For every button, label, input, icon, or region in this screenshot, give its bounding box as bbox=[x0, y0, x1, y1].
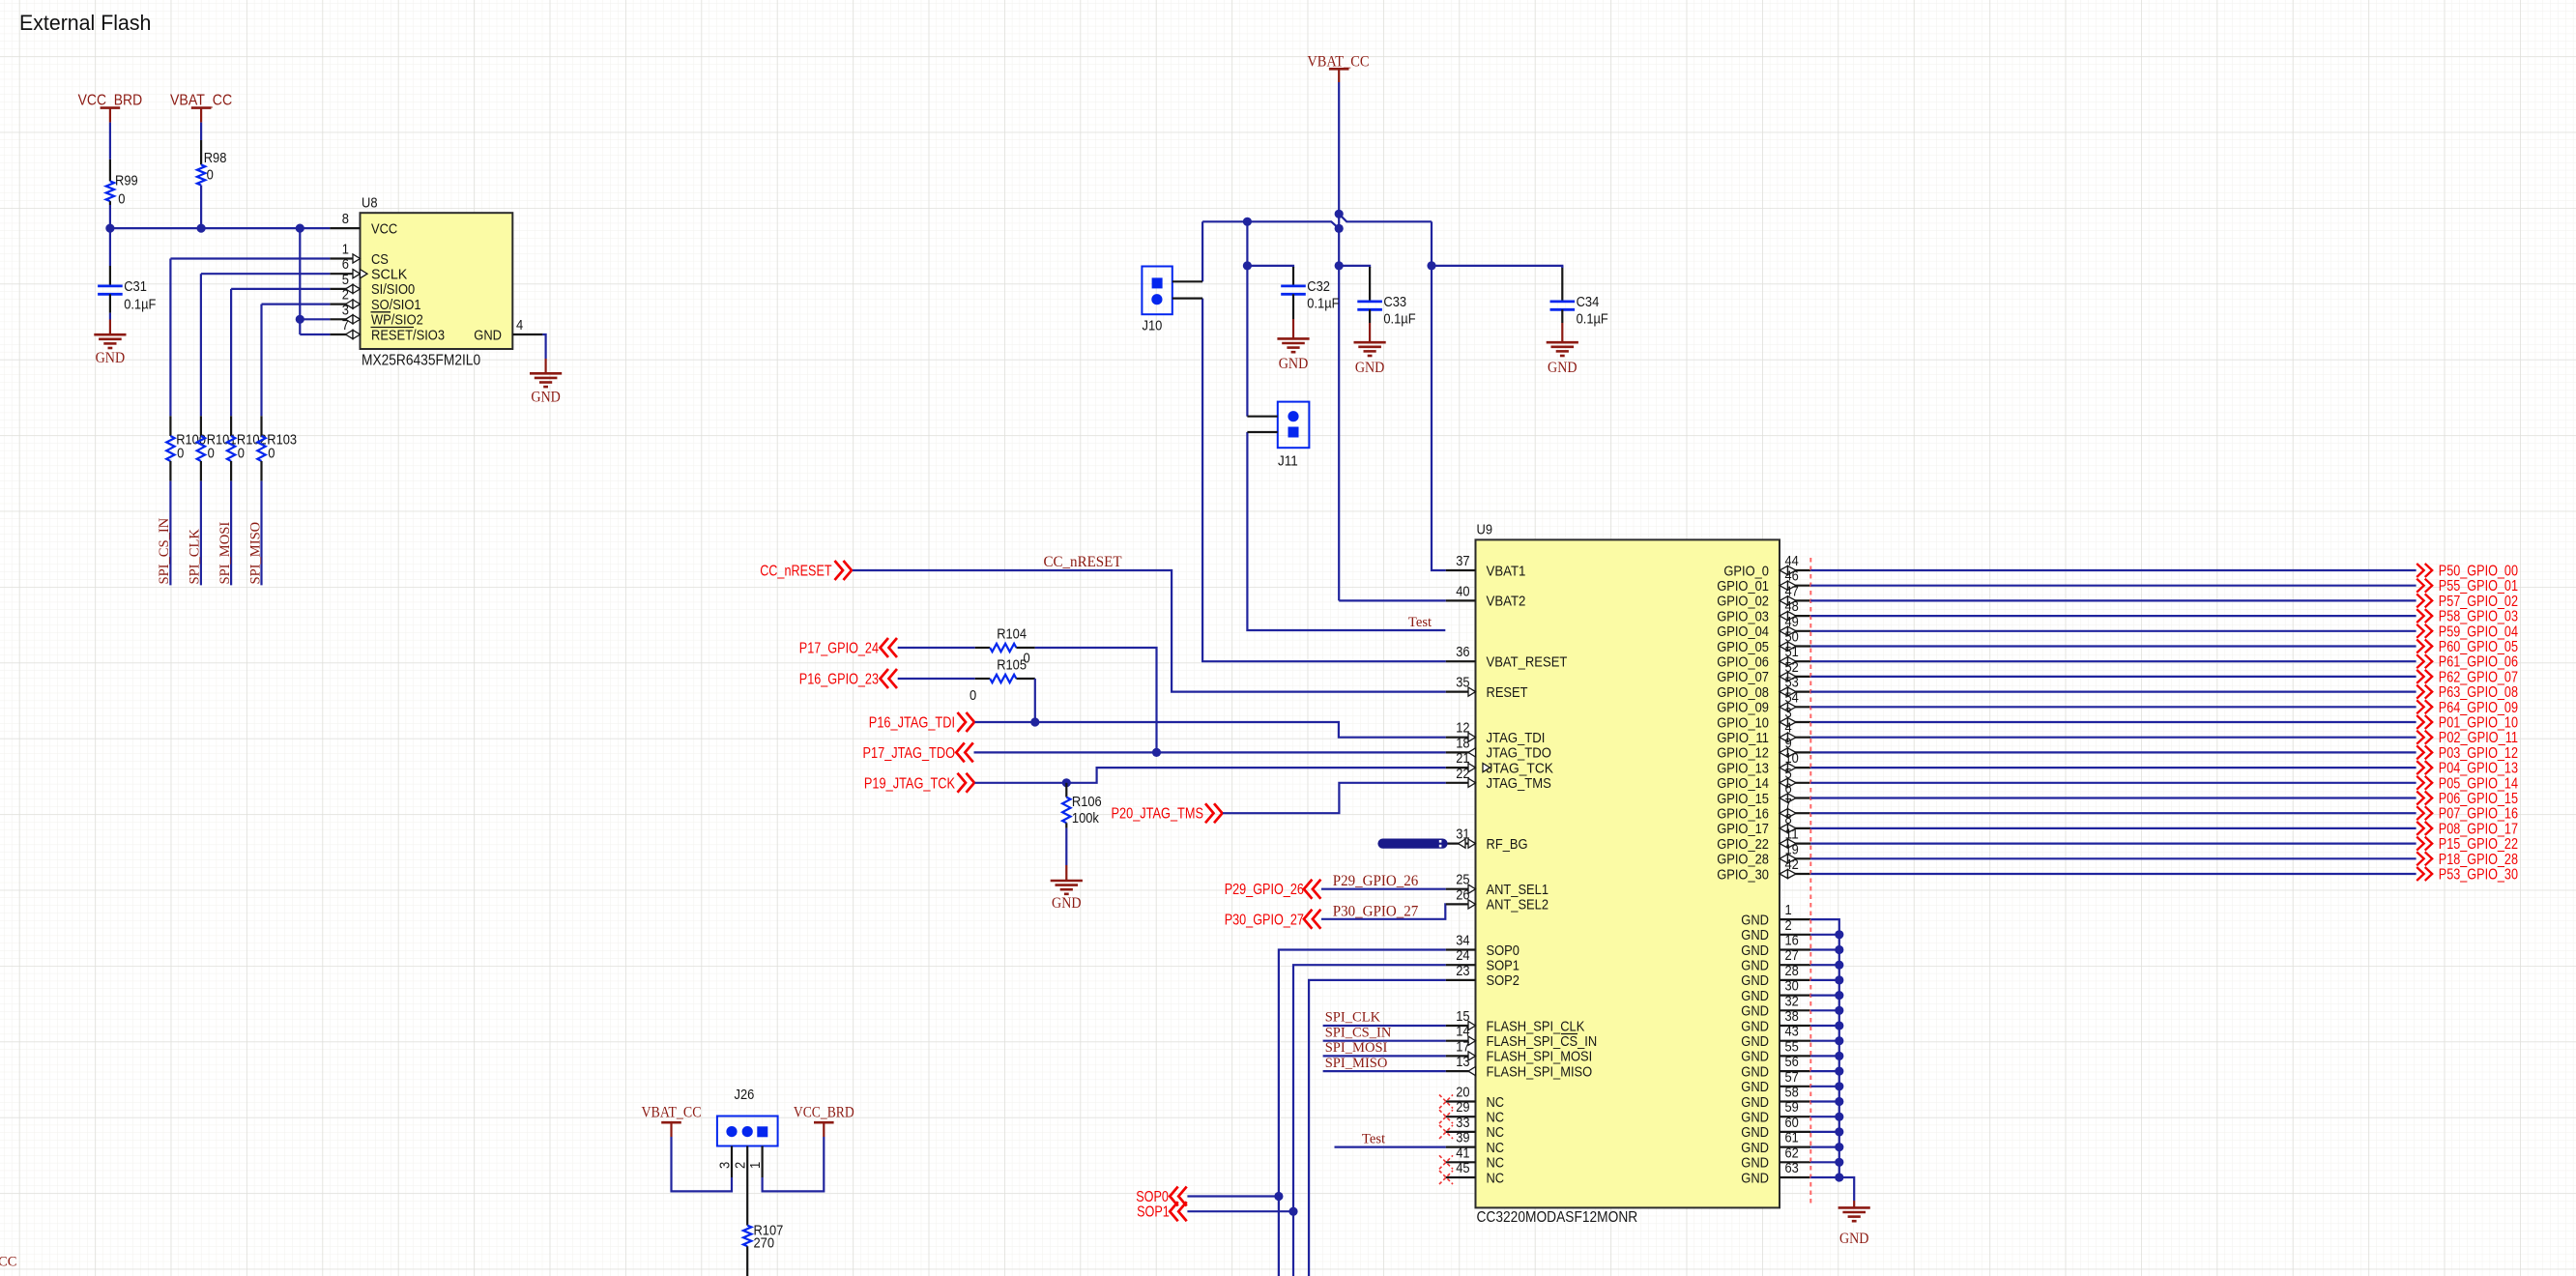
wire GPIO row 17 bbox=[1810, 827, 2416, 829]
wire J26 pin3 to VBAT_CC bbox=[672, 1137, 733, 1191]
wire CC_nRESET to RESET pin35 bbox=[853, 570, 1446, 692]
port P63_GPIO_08 bbox=[2417, 684, 2518, 701]
svg-text:MX25R6435FM2IL0: MX25R6435FM2IL0 bbox=[362, 353, 480, 369]
U9 pin 2 GND bbox=[1741, 917, 1810, 943]
junction GND bus bbox=[1835, 975, 1843, 984]
svg-text:P03_GPIO_12: P03_GPIO_12 bbox=[2439, 745, 2518, 762]
svg-text:2: 2 bbox=[1785, 917, 1792, 934]
svg-text:GPIO_17: GPIO_17 bbox=[1717, 821, 1769, 837]
U9 pin 42 GPIO_30 bbox=[1717, 856, 1810, 883]
port P29_GPIO_26 bbox=[1225, 880, 1321, 899]
junction VCC-pullup column bbox=[296, 224, 304, 233]
svg-text:30: 30 bbox=[1785, 978, 1799, 995]
U9 pin 12 JTAG_TDI bbox=[1446, 720, 1546, 746]
resistor R99 0 bbox=[106, 159, 138, 208]
junction VBAT upper bbox=[1335, 210, 1344, 218]
U9 pin 17 FLASH_SPI_MOSI bbox=[1446, 1038, 1592, 1064]
U9 pin 16 GND bbox=[1741, 933, 1810, 959]
svg-text:GND: GND bbox=[1741, 1063, 1769, 1080]
wire GPIO row 12 bbox=[1810, 751, 2416, 753]
wire P29_GPIO_26 to ANT_SEL1 pin25 bbox=[1321, 888, 1446, 890]
port P20_JTAG_TMS bbox=[1112, 803, 1223, 823]
wire J26 pin1 to VCC_BRD bbox=[763, 1137, 825, 1191]
svg-text:SPI_MISO: SPI_MISO bbox=[247, 522, 263, 585]
U9 pin 1 GND bbox=[1741, 902, 1810, 928]
U9 pin 28 GND bbox=[1741, 963, 1810, 989]
svg-text:GND: GND bbox=[1741, 1033, 1769, 1050]
svg-text:6: 6 bbox=[342, 256, 349, 273]
U9 pin 27 GND bbox=[1741, 947, 1810, 973]
U9 pin 20 NC bbox=[1439, 1085, 1504, 1111]
svg-text:0: 0 bbox=[118, 190, 125, 207]
svg-text:0.1µF: 0.1µF bbox=[124, 297, 156, 313]
junction GND bus bbox=[1835, 930, 1843, 939]
port P53_GPIO_30 bbox=[2417, 867, 2518, 884]
svg-text:NC: NC bbox=[1487, 1094, 1505, 1111]
svg-text:GPIO_07: GPIO_07 bbox=[1717, 669, 1769, 685]
svg-text:GND: GND bbox=[1052, 895, 1082, 912]
U9 pin 33 NC bbox=[1439, 1115, 1504, 1141]
U9 pin 48 GPIO_03 bbox=[1717, 598, 1810, 624]
junction GND bus bbox=[1835, 1067, 1843, 1076]
svg-text:P61_GPIO_06: P61_GPIO_06 bbox=[2439, 654, 2518, 671]
svg-text:0.1µF: 0.1µF bbox=[1383, 311, 1415, 328]
wire P20_JTAG_TMS to pin22 bbox=[1223, 783, 1446, 813]
svg-text:P07_GPIO_16: P07_GPIO_16 bbox=[2439, 806, 2518, 823]
svg-text:0: 0 bbox=[238, 445, 245, 461]
junction GND bus bbox=[1835, 1173, 1843, 1181]
port P50_GPIO_00 bbox=[2417, 564, 2518, 580]
U9 pin 63 GND bbox=[1741, 1160, 1810, 1186]
svg-text:WP/SIO2: WP/SIO2 bbox=[371, 312, 423, 329]
wire P17_GPIO_24 to R104 bbox=[898, 647, 975, 649]
wire R98 to VCC node bbox=[200, 186, 202, 229]
wire RESET stub bbox=[300, 333, 330, 335]
svg-text:VBAT_RESET: VBAT_RESET bbox=[1487, 654, 1568, 671]
wire decap branch C32 bbox=[1247, 266, 1293, 268]
U9 pin 9 GPIO_12 bbox=[1717, 735, 1810, 761]
svg-text:1: 1 bbox=[342, 242, 349, 258]
junction SOP1 bbox=[1288, 1207, 1297, 1216]
U9 pin 57 GND bbox=[1741, 1069, 1810, 1095]
svg-text:38: 38 bbox=[1785, 1008, 1799, 1025]
U8 pin 7 RESET/SIO3 bbox=[330, 317, 445, 343]
wire SPI_MISO to U9 bbox=[1323, 1070, 1446, 1072]
wire SPI_MOSI to U9 bbox=[1323, 1055, 1446, 1057]
wire U8 GND pin to ground bbox=[542, 334, 545, 359]
svg-text:0.1µF: 0.1µF bbox=[1577, 311, 1608, 328]
junction GND bus bbox=[1835, 1006, 1843, 1015]
svg-text:CS: CS bbox=[371, 251, 389, 268]
power port VBAT_CC left bbox=[170, 92, 232, 122]
wire GPIO row 8 bbox=[1810, 690, 2416, 692]
svg-text:GPIO_11: GPIO_11 bbox=[1717, 730, 1769, 746]
J10 pin2 stub bbox=[1172, 298, 1202, 300]
svg-text:GPIO_15: GPIO_15 bbox=[1717, 791, 1769, 807]
svg-text:NC: NC bbox=[1487, 1124, 1505, 1141]
U9 pin 59 GND bbox=[1741, 1099, 1810, 1125]
svg-text:P62_GPIO_07: P62_GPIO_07 bbox=[2439, 669, 2518, 685]
svg-text:SOP1: SOP1 bbox=[1487, 958, 1520, 974]
svg-text:P63_GPIO_08: P63_GPIO_08 bbox=[2439, 684, 2518, 701]
svg-text:GND: GND bbox=[1741, 912, 1769, 928]
port P58_GPIO_03 bbox=[2417, 609, 2518, 625]
U8 pin 1 CS bbox=[330, 242, 389, 268]
port CC_nRESET bbox=[760, 561, 852, 580]
svg-text:ANT_SEL2: ANT_SEL2 bbox=[1487, 897, 1549, 913]
J11 pin1 stub bbox=[1247, 416, 1277, 418]
J11 pin2 stub bbox=[1247, 431, 1277, 433]
svg-text:P55_GPIO_01: P55_GPIO_01 bbox=[2439, 578, 2518, 594]
svg-text:0: 0 bbox=[208, 445, 215, 461]
port P04_GPIO_13 bbox=[2417, 761, 2518, 777]
svg-text:P53_GPIO_30: P53_GPIO_30 bbox=[2439, 867, 2518, 884]
wire U8 R102 net bbox=[231, 288, 330, 290]
junction GND bus bbox=[1835, 1113, 1843, 1121]
svg-text:R99: R99 bbox=[115, 173, 138, 189]
svg-text:P29_GPIO_26: P29_GPIO_26 bbox=[1333, 873, 1419, 889]
U9 pin 6 GPIO_15 bbox=[1717, 781, 1810, 807]
J26 pin2 stub bbox=[746, 1146, 748, 1178]
power port VCC_BRD bbox=[78, 92, 143, 122]
svg-text:GND: GND bbox=[1741, 927, 1769, 943]
flash chip U8 MX25R6435FM2IL0 body bbox=[361, 195, 513, 369]
svg-text:GPIO_02: GPIO_02 bbox=[1717, 594, 1769, 610]
svg-text:VBAT_CC: VBAT_CC bbox=[170, 92, 232, 108]
svg-text:8: 8 bbox=[342, 211, 349, 227]
wire U8 R103 net bbox=[262, 304, 331, 305]
svg-text:GND: GND bbox=[1741, 958, 1769, 974]
junction GND bus bbox=[1835, 1143, 1843, 1151]
junction VBAT lower bbox=[1335, 224, 1344, 233]
svg-text:34: 34 bbox=[1456, 933, 1469, 949]
port SOP0 bbox=[1136, 1187, 1186, 1206]
U8 pin 4 GND bbox=[474, 317, 542, 343]
resistor R107 270 bbox=[743, 1210, 783, 1276]
svg-text:43: 43 bbox=[1785, 1024, 1799, 1040]
svg-text:59: 59 bbox=[1785, 1099, 1799, 1116]
svg-text:45: 45 bbox=[1456, 1160, 1469, 1176]
port P61_GPIO_06 bbox=[2417, 654, 2518, 671]
svg-text:56: 56 bbox=[1785, 1054, 1799, 1070]
U8 pin 2 SO/SIO1 bbox=[330, 287, 420, 313]
svg-text:GPIO_28: GPIO_28 bbox=[1717, 852, 1769, 868]
U9 pin 18 JTAG_TDO bbox=[1446, 735, 1551, 761]
wire GPIO row 11 bbox=[1810, 737, 2416, 739]
svg-text:GPIO_03: GPIO_03 bbox=[1717, 608, 1769, 624]
port P03_GPIO_12 bbox=[2417, 745, 2518, 762]
svg-text:C34: C34 bbox=[1577, 294, 1600, 310]
U8 pin 5 SI/SIO0 bbox=[330, 272, 415, 298]
wire U8 R101 net bbox=[201, 273, 331, 275]
wire GPIO row 15 bbox=[1810, 797, 2416, 798]
wire GPIO row 18 bbox=[1810, 842, 2416, 844]
U8 pin 6 SCLK bbox=[330, 256, 407, 282]
wire decap branch C34 bbox=[1432, 266, 1562, 268]
svg-text:P64_GPIO_09: P64_GPIO_09 bbox=[2439, 700, 2518, 716]
wire R106 to GND bbox=[1065, 828, 1067, 865]
svg-text:NC: NC bbox=[1487, 1110, 1505, 1126]
wire bus to J11 pin1 bbox=[1246, 221, 1248, 416]
port SOP1 bbox=[1137, 1202, 1187, 1221]
svg-text:GND: GND bbox=[1741, 1140, 1769, 1156]
U9 pin 53 GPIO_08 bbox=[1717, 675, 1810, 701]
U9 pin 36 VBAT_RESET bbox=[1446, 644, 1568, 670]
svg-text:0: 0 bbox=[970, 687, 976, 704]
U9 pin 26 ANT_SEL2 bbox=[1446, 886, 1548, 913]
svg-text:SPI_CLK: SPI_CLK bbox=[188, 529, 203, 585]
svg-text:R98: R98 bbox=[204, 150, 227, 166]
no-ERC dashed line bbox=[1809, 558, 1811, 1205]
svg-text:P15_GPIO_22: P15_GPIO_22 bbox=[2439, 836, 2518, 853]
svg-text:RESET/SIO3: RESET/SIO3 bbox=[371, 327, 445, 343]
U9 pin 39 NC bbox=[1446, 1130, 1504, 1156]
svg-text:SOP2: SOP2 bbox=[1487, 972, 1520, 989]
svg-text:100k: 100k bbox=[1072, 810, 1099, 826]
svg-text:NC: NC bbox=[1487, 1155, 1505, 1172]
connector J26 bbox=[717, 1087, 778, 1146]
svg-text:SPI_CS_IN: SPI_CS_IN bbox=[1325, 1025, 1392, 1040]
junction GND bus bbox=[1835, 1082, 1843, 1090]
port P15_GPIO_22 bbox=[2417, 836, 2518, 853]
wire GPIO row 2 bbox=[1810, 599, 2416, 601]
svg-text:GND: GND bbox=[1839, 1231, 1869, 1247]
svg-text:SCLK: SCLK bbox=[371, 267, 407, 283]
svg-text:GND: GND bbox=[1741, 1018, 1769, 1034]
svg-text:VBAT_CC: VBAT_CC bbox=[1307, 53, 1369, 70]
svg-text:P17_GPIO_24: P17_GPIO_24 bbox=[799, 641, 879, 657]
junction GND bus bbox=[1835, 1158, 1843, 1167]
svg-text:P30_GPIO_27: P30_GPIO_27 bbox=[1333, 903, 1419, 919]
port P01_GPIO_10 bbox=[2417, 715, 2518, 732]
svg-text:CC_nRESET: CC_nRESET bbox=[760, 564, 832, 580]
svg-text:GPIO_01: GPIO_01 bbox=[1717, 578, 1769, 594]
svg-text:JTAG_TDI: JTAG_TDI bbox=[1487, 730, 1546, 746]
svg-text:P20_JTAG_TMS: P20_JTAG_TMS bbox=[1112, 806, 1204, 823]
U9 pin 61 GND bbox=[1741, 1130, 1810, 1156]
U9 pin 22 JTAG_TMS bbox=[1446, 766, 1551, 792]
svg-text:NC: NC bbox=[1487, 1170, 1505, 1186]
svg-text:GND: GND bbox=[1741, 1170, 1769, 1186]
port P60_GPIO_05 bbox=[2417, 639, 2518, 655]
wire SOP2 net bbox=[1309, 980, 1446, 1276]
capacitor C31 0.1uF bbox=[98, 266, 156, 313]
svg-text:P50_GPIO_00: P50_GPIO_00 bbox=[2439, 564, 2518, 580]
svg-text:55: 55 bbox=[1785, 1038, 1799, 1055]
wire GPIO row 19 bbox=[1810, 857, 2416, 859]
svg-text:60: 60 bbox=[1785, 1115, 1799, 1131]
junction R105-TDI bbox=[1030, 717, 1039, 726]
svg-text:SOP0: SOP0 bbox=[1136, 1189, 1169, 1205]
port P30_GPIO_27 bbox=[1225, 910, 1321, 929]
U8 pin 8 VCC bbox=[330, 211, 397, 237]
svg-text:0: 0 bbox=[207, 167, 214, 184]
svg-text:P17_JTAG_TDO: P17_JTAG_TDO bbox=[863, 745, 956, 762]
ground GND under C34 bbox=[1561, 323, 1563, 342]
port P16_JTAG_TDI bbox=[869, 712, 974, 732]
wire R105 to TDI net bbox=[1034, 679, 1036, 722]
svg-text:P29_GPIO_26: P29_GPIO_26 bbox=[1225, 882, 1304, 898]
svg-text:FLASH_SPI_CS_IN: FLASH_SPI_CS_IN bbox=[1487, 1033, 1598, 1050]
svg-text:GND: GND bbox=[1741, 1155, 1769, 1172]
resistor R103 0 bbox=[257, 416, 297, 480]
svg-text:23: 23 bbox=[1456, 963, 1469, 979]
svg-text:4: 4 bbox=[516, 317, 523, 333]
svg-text:RF_BG: RF_BG bbox=[1487, 836, 1528, 853]
U9 pin 52 GPIO_07 bbox=[1717, 659, 1810, 685]
U9 pin 51 GPIO_06 bbox=[1717, 644, 1810, 670]
svg-text:P57_GPIO_02: P57_GPIO_02 bbox=[2439, 594, 2518, 610]
wire R99 to VCC node bbox=[109, 205, 111, 228]
wire P17_JTAG_TDO to pin18 bbox=[974, 751, 1446, 753]
svg-text:GND: GND bbox=[1741, 1124, 1769, 1141]
wire GPIO row 3 bbox=[1810, 615, 2416, 617]
port P08_GPIO_17 bbox=[2417, 821, 2518, 837]
port P64_GPIO_09 bbox=[2417, 700, 2518, 716]
svg-text:SPI_CLK: SPI_CLK bbox=[1325, 1010, 1381, 1026]
U9 pin 49 GPIO_04 bbox=[1717, 614, 1810, 640]
U9 pin 37 VBAT1 bbox=[1446, 553, 1526, 579]
wire GPIO row 0 bbox=[1810, 569, 2416, 571]
svg-text:3: 3 bbox=[717, 1162, 734, 1169]
svg-text:J10: J10 bbox=[1143, 318, 1163, 334]
svg-text:1: 1 bbox=[747, 1162, 764, 1169]
svg-text:P16_JTAG_TDI: P16_JTAG_TDI bbox=[869, 715, 955, 732]
U9 pin 23 SOP2 bbox=[1446, 963, 1520, 989]
svg-text:63: 63 bbox=[1785, 1160, 1799, 1176]
wire GPIO row 14 bbox=[1810, 782, 2416, 784]
svg-text:VBAT1: VBAT1 bbox=[1487, 563, 1526, 579]
wire J26 pin2 to R107 bbox=[746, 1177, 748, 1210]
U9 pin 58 GND bbox=[1741, 1085, 1810, 1111]
junction decap bus left bbox=[1243, 261, 1252, 270]
svg-text:C33: C33 bbox=[1383, 294, 1406, 310]
U9 pin 14 FLASH_SPI_CS_IN bbox=[1446, 1024, 1597, 1050]
wire P19_JTAG_TCK to pin21 bbox=[975, 768, 1446, 783]
svg-text:61: 61 bbox=[1785, 1130, 1799, 1146]
U9 pin 60 GND bbox=[1741, 1115, 1810, 1141]
svg-text:16: 16 bbox=[1785, 933, 1799, 949]
junction GND bus bbox=[1835, 945, 1843, 954]
wire P30_GPIO_27 to ANT_SEL2 pin26 bbox=[1321, 904, 1446, 918]
wire R104 to TDO net bbox=[1035, 648, 1157, 752]
svg-text:GPIO_04: GPIO_04 bbox=[1717, 623, 1769, 640]
svg-text:GPIO_14: GPIO_14 bbox=[1717, 775, 1769, 792]
wire VBAT_CC vertical to VBAT2 bbox=[1338, 82, 1340, 600]
svg-text:GPIO_16: GPIO_16 bbox=[1717, 806, 1769, 823]
svg-text:SPI_MISO: SPI_MISO bbox=[1325, 1056, 1388, 1071]
svg-text:VCC_BRD: VCC_BRD bbox=[794, 1104, 854, 1120]
U9 pin 54 GPIO_09 bbox=[1717, 689, 1810, 715]
wire SPI_CS_IN to U9 bbox=[1323, 1040, 1446, 1042]
svg-text:270: 270 bbox=[754, 1235, 775, 1252]
svg-text:U8: U8 bbox=[362, 195, 378, 212]
svg-text:20: 20 bbox=[1456, 1085, 1469, 1101]
svg-text:32: 32 bbox=[1785, 993, 1799, 1009]
resistor R98 0 bbox=[197, 140, 227, 186]
wire SOP1 net bbox=[1293, 965, 1446, 1276]
wire GPIO row 1 bbox=[1810, 585, 2416, 587]
U9 pin 4 GPIO_11 bbox=[1717, 720, 1810, 746]
svg-text:41: 41 bbox=[1456, 1145, 1469, 1161]
U9 pin 43 GND bbox=[1741, 1024, 1810, 1050]
wire SOP1 port to bus bbox=[1187, 1210, 1293, 1212]
resistor R105 0 bbox=[970, 657, 1035, 704]
svg-text:GND: GND bbox=[474, 327, 502, 343]
svg-text:0.1µF: 0.1µF bbox=[1307, 296, 1339, 312]
U9 pin 38 GND bbox=[1741, 1008, 1810, 1034]
svg-text:VCC_BRD: VCC_BRD bbox=[78, 92, 143, 108]
svg-text:R104: R104 bbox=[997, 626, 1027, 643]
svg-text:VCC: VCC bbox=[371, 220, 397, 237]
U9 pin 34 SOP0 bbox=[1446, 933, 1520, 959]
U9 pin 19 GPIO_28 bbox=[1717, 841, 1810, 867]
port P62_GPIO_07 bbox=[2417, 669, 2518, 685]
junction GND bus bbox=[1835, 1021, 1843, 1029]
svg-text:P59_GPIO_04: P59_GPIO_04 bbox=[2439, 623, 2518, 640]
wire bus corner to VBAT1 pin37 bbox=[1432, 221, 1446, 570]
wire VCC_BRD to R99 bbox=[109, 123, 111, 159]
wire J10 pin2 to VBAT_RESET pin36 bbox=[1202, 299, 1446, 662]
wire GPIO row 10 bbox=[1810, 721, 2416, 723]
wire decap branch C33 bbox=[1339, 266, 1370, 268]
svg-text:5: 5 bbox=[342, 272, 349, 288]
svg-text:GND: GND bbox=[1548, 360, 1577, 376]
U9 pin 44 GPIO_0 bbox=[1723, 553, 1810, 579]
svg-text:0: 0 bbox=[177, 445, 184, 461]
svg-text:GPIO_30: GPIO_30 bbox=[1717, 866, 1769, 883]
wire SPI_CS_IN stub bbox=[169, 481, 171, 586]
connector J10 bbox=[1142, 267, 1172, 334]
junction TCK-R106 bbox=[1062, 778, 1071, 787]
U9 pin 8 GPIO_17 bbox=[1717, 811, 1810, 837]
resistor R106 100k bbox=[1062, 783, 1102, 828]
svg-text:GPIO_13: GPIO_13 bbox=[1717, 760, 1769, 776]
svg-text:C32: C32 bbox=[1307, 278, 1330, 295]
port P17_JTAG_TDO bbox=[863, 742, 973, 762]
svg-text:0: 0 bbox=[268, 445, 275, 461]
RF_BG thick trace bbox=[1383, 840, 1443, 847]
junction decap bus VBAT bbox=[1335, 261, 1344, 270]
svg-text:P08_GPIO_17: P08_GPIO_17 bbox=[2439, 821, 2518, 837]
ground GND under C32 bbox=[1292, 319, 1294, 338]
svg-text:U9: U9 bbox=[1477, 522, 1493, 538]
U9 pin 29 NC bbox=[1439, 1099, 1504, 1125]
svg-text:JTAG_TDO: JTAG_TDO bbox=[1487, 745, 1551, 762]
svg-text:29: 29 bbox=[1456, 1099, 1469, 1116]
U9 pin 10 GPIO_13 bbox=[1717, 750, 1810, 776]
svg-text:C31: C31 bbox=[124, 278, 147, 295]
svg-text:RESET: RESET bbox=[1487, 684, 1528, 701]
U9 pin 25 ANT_SEL1 bbox=[1446, 872, 1548, 898]
svg-text:R105: R105 bbox=[997, 657, 1027, 674]
svg-text:CC: CC bbox=[0, 1255, 16, 1270]
U9 pin 47 GPIO_02 bbox=[1717, 583, 1810, 609]
wire bus to J10 pin1 bbox=[1201, 221, 1203, 281]
svg-text:3: 3 bbox=[342, 302, 349, 318]
resistor R104 0 bbox=[975, 626, 1035, 667]
wire U9 GND bus bbox=[1810, 919, 1854, 1201]
junction SOP0 bbox=[1274, 1192, 1283, 1201]
svg-text:Test: Test bbox=[1408, 615, 1432, 630]
wire GPIO row 20 bbox=[1810, 873, 2416, 875]
svg-text:GND: GND bbox=[1741, 972, 1769, 989]
svg-text:FLASH_SPI_MISO: FLASH_SPI_MISO bbox=[1487, 1063, 1593, 1080]
port P57_GPIO_02 bbox=[2417, 594, 2518, 610]
U9 pin 50 GPIO_05 bbox=[1717, 629, 1810, 655]
svg-text:24: 24 bbox=[1456, 947, 1469, 964]
svg-text:40: 40 bbox=[1456, 583, 1469, 599]
